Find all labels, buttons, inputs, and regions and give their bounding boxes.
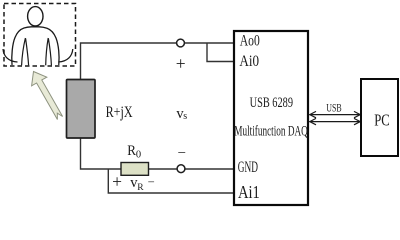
human figure right inner arm lines: [46, 38, 52, 65]
svg-text:0: 0: [136, 150, 141, 161]
svg-text:Ao0: Ao0: [240, 33, 260, 50]
svg-text:+: +: [112, 172, 122, 192]
svg-text:Ai0: Ai0: [239, 53, 259, 70]
PC box: [361, 79, 398, 156]
USB bus line lower with double arrowheads: [310, 118, 361, 124]
human figure right hand arc: [58, 49, 73, 62]
human figure left hand arc: [3, 49, 18, 62]
svg-text:Multifunction DAQ: Multifunction DAQ: [234, 124, 308, 140]
USB bus line upper with double arrowheads: [310, 111, 361, 117]
wire branch to Ai1: [108, 169, 234, 193]
svg-text:−: −: [148, 175, 155, 189]
svg-text:GND: GND: [238, 159, 258, 176]
wire from impedance top to Ao0 node: [81, 43, 235, 80]
svg-text:Ai1: Ai1: [238, 182, 260, 202]
pointer arrow to body: [32, 72, 63, 120]
svg-text:R: R: [127, 143, 136, 159]
svg-text:R: R: [137, 183, 144, 193]
node circle bottom (vR -): [177, 165, 185, 173]
svg-text:PC: PC: [374, 111, 390, 130]
svg-text:USB: USB: [326, 102, 342, 114]
human figure torso: [12, 27, 59, 65]
svg-text:s: s: [183, 111, 187, 122]
svg-text:R+jX: R+jX: [106, 104, 133, 121]
human figure left inner arm lines: [22, 38, 29, 65]
wire from impedance bottom through R0 to GND: [81, 138, 235, 169]
wire branch to Ai0: [207, 43, 234, 62]
DAQ U1 (USB 6289) box: [234, 31, 308, 205]
resistor R0: [121, 163, 149, 176]
human figure head: [28, 7, 43, 26]
body (dashed box around human subject): [4, 4, 76, 67]
impedance Z (R+jX) box: [67, 80, 96, 139]
svg-text:+: +: [176, 54, 186, 74]
node circle top (vs +): [177, 39, 185, 47]
svg-text:USB 6289: USB 6289: [250, 95, 293, 111]
svg-text:−: −: [178, 146, 186, 162]
